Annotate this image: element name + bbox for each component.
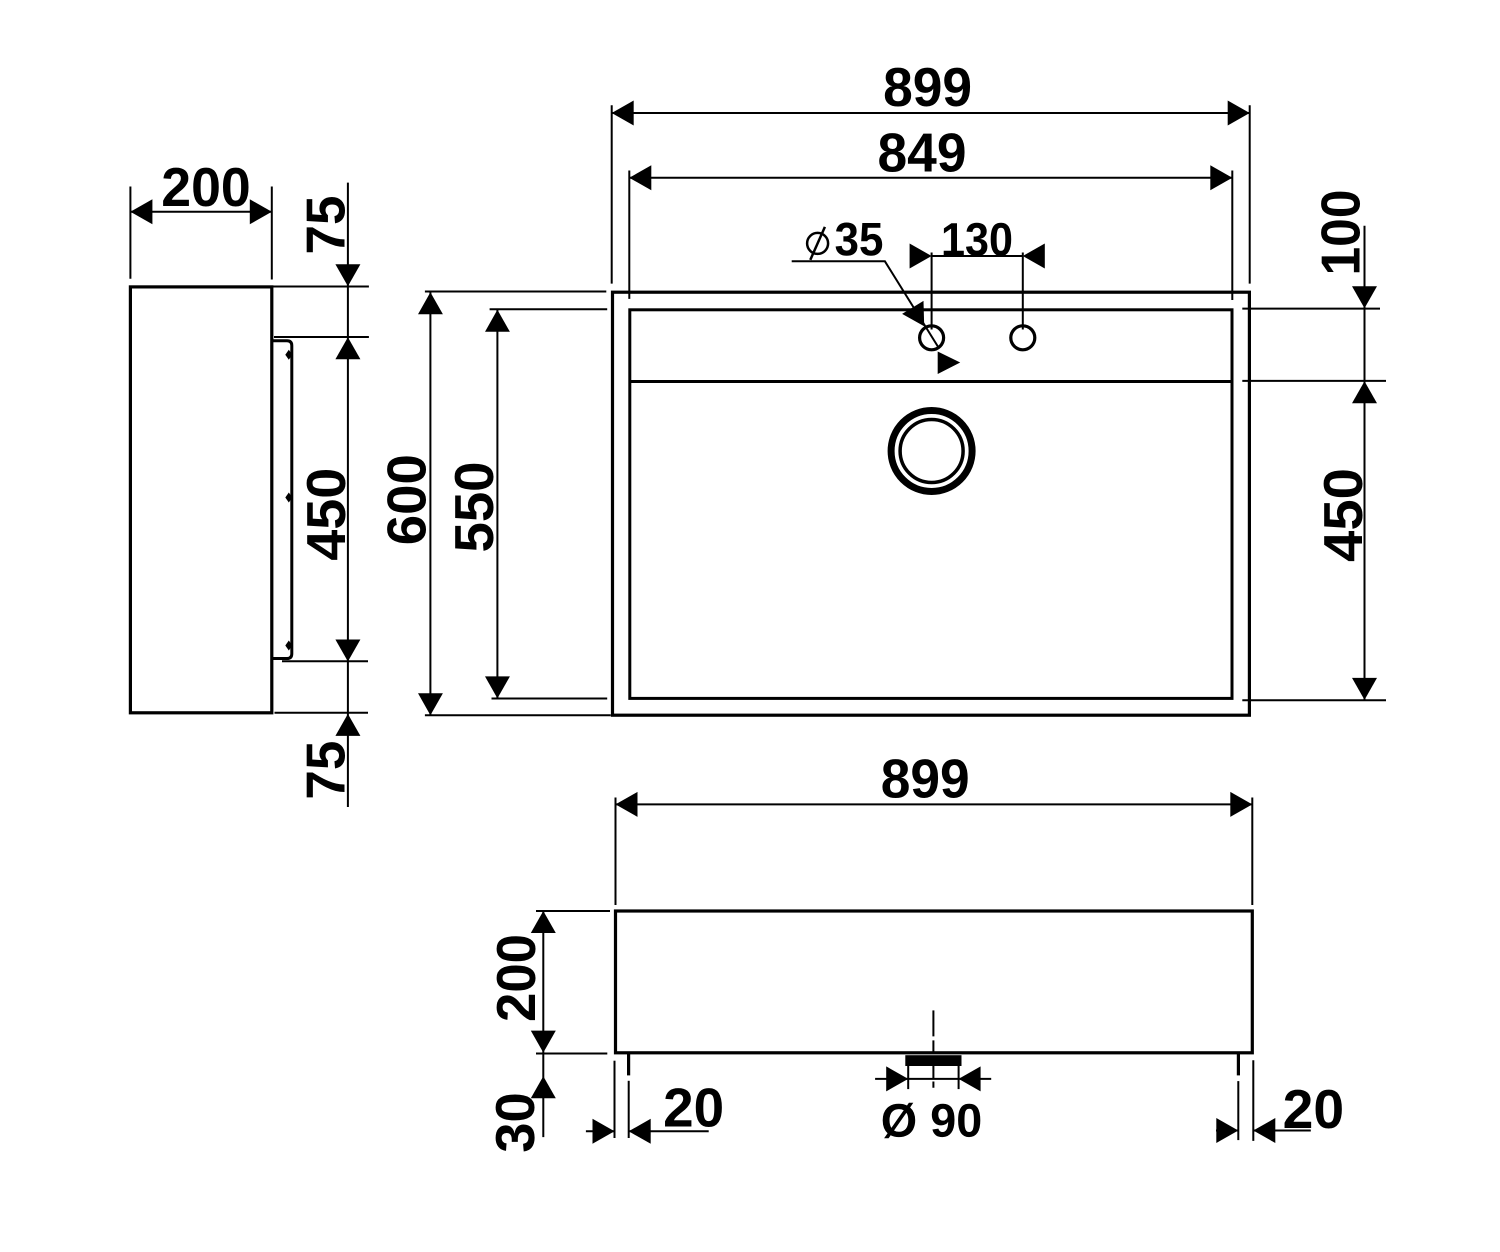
dimension 849: extension lines <box>628 171 630 299</box>
dimension 200: right arrow <box>250 199 272 224</box>
dimension 550: bottom arrow <box>485 676 510 698</box>
extension line at bracket bottom <box>282 660 368 662</box>
dimension 130: right arrow (outside) <box>1023 244 1045 269</box>
svg-text:75: 75 <box>295 741 357 800</box>
svg-text:899: 899 <box>883 56 972 118</box>
dimension 30: arrow up <box>531 1076 556 1098</box>
dimension 20 right: left-pointing arrow <box>1253 1118 1275 1143</box>
svg-text:75: 75 <box>295 196 357 255</box>
dimension 899 top: dimension line <box>612 112 1250 114</box>
dimension 100: top arrow (outside, pointing down) <box>1352 286 1377 308</box>
dimension 20 right: dimension line segments <box>1216 1130 1238 1132</box>
dimension 200/30 chain line <box>542 911 544 1137</box>
faucet hole left <box>920 326 944 350</box>
dimension 100/450 shared arrow (pointing up) <box>1352 381 1377 403</box>
dimension 200: extension lines <box>129 187 131 279</box>
dimension Ø90: side ticks <box>907 1066 909 1089</box>
dimension Ø90: label <box>883 1103 981 1139</box>
dimension line 100/450 right <box>1364 226 1366 700</box>
dimension 899 top: extension lines <box>611 105 613 283</box>
dimension 20 left: right-pointing arrow <box>593 1119 615 1144</box>
bracket screw marker top <box>285 350 292 360</box>
dimension 20 right: extension lines <box>1237 1081 1239 1140</box>
dimension 130: label <box>944 223 1012 256</box>
drain outer circle <box>891 411 972 492</box>
basin outer rectangle <box>613 292 1250 715</box>
dimension 75 bottom: arrow up <box>335 714 360 736</box>
drain centerline lower <box>932 1066 934 1088</box>
dimension 130: extension lines through holes <box>931 253 933 330</box>
bracket screw marker middle <box>285 493 292 503</box>
dimension 20 left: dimension line segments <box>586 1130 615 1132</box>
dimension 200: left arrow <box>130 199 152 224</box>
dimension 75 top: arrow down <box>335 264 360 286</box>
basin front outline <box>616 911 1253 1053</box>
svg-text:100: 100 <box>1310 190 1372 276</box>
left foot <box>627 1053 630 1076</box>
dimension 200 front: extension lines <box>536 910 610 912</box>
right side extension lines (inner top / deck / inner bottom) <box>1242 308 1380 310</box>
dimension 600: dimension line <box>429 292 431 715</box>
dimension 130: left arrow (outside) <box>910 244 932 269</box>
svg-text:200: 200 <box>485 934 547 1022</box>
svg-text:600: 600 <box>376 454 438 545</box>
dimension 20 left: left-pointing arrow <box>629 1119 651 1144</box>
dimension 849: right arrow <box>1210 165 1232 190</box>
dimension line 75/450/75 chain <box>347 183 349 807</box>
dimension 450 left: bottom arrow <box>335 640 360 662</box>
left side extension lines of plan view <box>425 291 606 293</box>
dimension 20 right: right-pointing arrow <box>1216 1118 1238 1143</box>
dimension 600: bottom arrow <box>418 693 443 715</box>
right foot <box>1237 1053 1240 1076</box>
extension line at basin top (75) <box>272 286 369 288</box>
drain centerline upper <box>932 1010 934 1052</box>
svg-text:849: 849 <box>878 122 967 184</box>
drain waste bar <box>905 1055 961 1066</box>
faucet hole right <box>1011 326 1035 350</box>
dimension 899 front: dimension line <box>616 803 1253 805</box>
svg-text:200: 200 <box>161 156 251 218</box>
dimension 899 front: left arrow <box>616 792 638 817</box>
dimension 200 front: bottom arrow <box>531 1031 556 1053</box>
svg-text:30: 30 <box>484 1092 546 1153</box>
dimension 899 front: extension lines <box>615 798 617 906</box>
svg-text:450: 450 <box>1312 468 1374 562</box>
dimension 200: dimension line <box>130 211 271 213</box>
dimension Ø90: right arrow <box>959 1066 981 1091</box>
svg-text:550: 550 <box>443 462 505 553</box>
bracket screw marker bottom <box>285 641 292 651</box>
dimension 550: dimension line <box>496 310 498 699</box>
extension line at bracket top <box>274 336 369 338</box>
dimension 899 front: right arrow <box>1230 792 1252 817</box>
leader arrow lower (at hole edge) <box>938 352 961 375</box>
svg-text:20: 20 <box>1283 1078 1345 1140</box>
dimension 130: dimension line <box>932 255 1023 257</box>
dimension 600: top arrow <box>418 292 443 314</box>
dimension 899 top: left arrow <box>612 101 634 126</box>
svg-text:899: 899 <box>881 747 970 809</box>
dimension 450 right: bottom arrow <box>1352 678 1377 700</box>
drain inner circle <box>900 420 963 483</box>
dimension 450 left: top arrow <box>335 337 360 359</box>
label 35 <box>836 223 883 256</box>
diameter symbol for 35 <box>807 233 828 254</box>
basin body side outline <box>130 287 271 713</box>
dimension Ø90: left arrow <box>886 1066 908 1091</box>
deck line <box>630 380 1232 383</box>
dimension 20 left: extension lines <box>614 1061 616 1138</box>
dimension 200 front: top arrow <box>531 911 556 933</box>
leader arrow upper (at hole edge) <box>902 301 924 326</box>
basin inner rectangle <box>630 310 1232 699</box>
svg-text:450: 450 <box>295 468 357 561</box>
dimension 849: dimension line <box>629 177 1232 179</box>
dimension Ø90: dimension line <box>875 1078 991 1080</box>
dimension 849: left arrow <box>629 165 651 190</box>
dimension 899 top: right arrow <box>1228 101 1250 126</box>
wall bracket <box>272 341 292 659</box>
extension line at basin bottom <box>275 712 369 714</box>
svg-text:20: 20 <box>663 1076 724 1138</box>
leader line for hole diameter 35 <box>792 261 940 348</box>
dimension 550: top arrow <box>485 310 510 332</box>
